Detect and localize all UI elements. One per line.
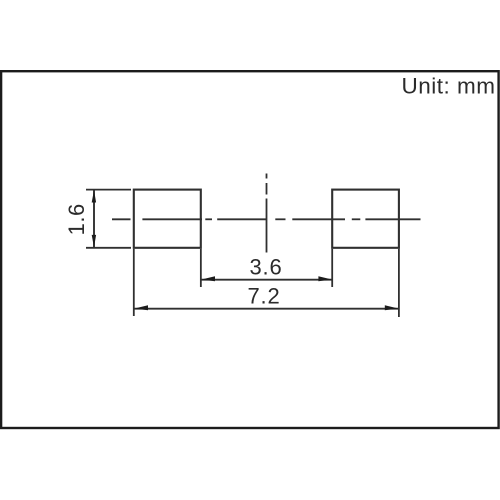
- dimension 3.6 arrow right: [318, 276, 332, 281]
- dimension 1.6 arrow bottom: [92, 235, 96, 248]
- left pad: [134, 190, 201, 248]
- dimension 3.6 arrow left: [202, 276, 216, 281]
- dimension 3.6 extension lines: [201, 249, 332, 287]
- dimension 7.2 line: [134, 308, 398, 310]
- svg-text:1.6: 1.6: [64, 203, 89, 235]
- svg-text:Unit: mm: Unit: mm: [402, 73, 496, 98]
- horizontal centerline: [112, 218, 421, 220]
- svg-text:7.2: 7.2: [248, 284, 281, 309]
- svg-text:3.6: 3.6: [250, 255, 283, 280]
- dimension 3.6 line: [201, 279, 332, 281]
- vertical centerline: [266, 174, 268, 253]
- dimension 7.2 arrow right: [385, 305, 399, 310]
- dimension 1.6 arrow top: [92, 190, 96, 203]
- dimension 7.2 arrow left: [135, 305, 149, 310]
- right pad: [332, 190, 399, 248]
- dimension 7.2 extension lines: [134, 249, 399, 317]
- drawing frame border: [1, 71, 499, 428]
- dimension 1.6 line: [93, 190, 95, 248]
- dimension 1.6 extension lines: [86, 190, 131, 248]
